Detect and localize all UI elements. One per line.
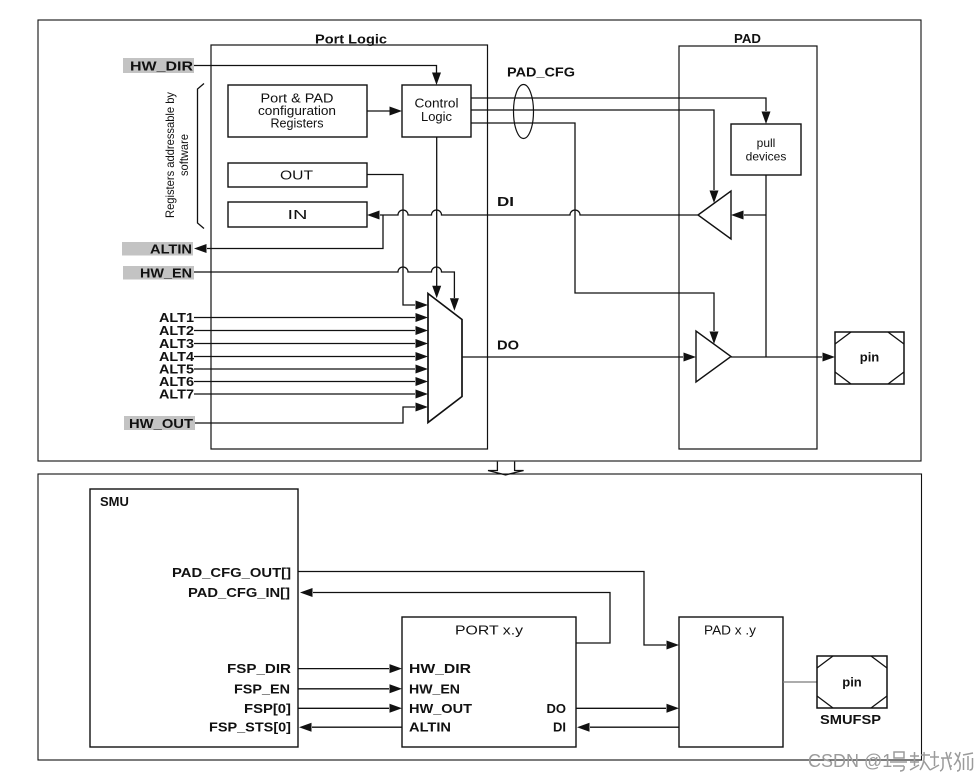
section divider hollow arrow [488, 462, 524, 475]
arrow pad node into input buffer [731, 211, 744, 220]
svg-text:FSP[0]: FSP[0] [244, 701, 291, 716]
svg-text:FSP_STS[0]: FSP_STS[0] [209, 720, 291, 735]
wire ALT3 [194, 343, 415, 345]
svg-text:DI: DI [497, 194, 514, 209]
arrow OUT into mux [416, 301, 429, 310]
arrow HW_OUT into mux [416, 403, 429, 412]
svg-text:Port Logic: Port Logic [315, 32, 387, 47]
svg-text:ALTIN: ALTIN [409, 720, 451, 735]
wire DO mux to output buffer [462, 356, 683, 358]
text pull devices [746, 136, 787, 164]
arrow ALTIN [194, 244, 207, 253]
svg-text:SMUFSP: SMUFSP [820, 712, 881, 727]
text Port & PAD configuration Registers [258, 92, 336, 131]
arrow FSP_EN [390, 684, 403, 693]
bus ellipse PAD_CFG [514, 85, 534, 139]
wire FSP_STS [312, 726, 402, 728]
wire HW_EN to mux with hops [194, 267, 454, 298]
wires group [194, 66, 822, 424]
svg-text:CSDN @1: CSDN @1 [808, 751, 892, 771]
arrow FSP0 [390, 704, 403, 713]
arrow PAD_CFG1 into pull devices [762, 112, 771, 125]
label HW_OUT [124, 416, 195, 431]
wire OUT to mux [367, 175, 415, 306]
SMU box [90, 489, 298, 747]
svg-text:FSP_DIR: FSP_DIR [227, 661, 292, 676]
PORT x.y box [402, 617, 576, 747]
svg-text:ALT7: ALT7 [159, 387, 194, 402]
svg-text:HW_EN: HW_EN [409, 681, 460, 696]
arrow FSP_DIR [390, 664, 403, 673]
arrow PAD_CFG2 into input buffer [710, 191, 719, 204]
svg-text:devices: devices [746, 150, 787, 164]
wire ALT7 [194, 393, 415, 395]
svg-text:pin: pin [842, 675, 862, 690]
svg-text:PAD_CFG_OUT[]: PAD_CFG_OUT[] [172, 565, 291, 580]
Port Logic container box [211, 45, 488, 449]
arrow HW_EN into mux [450, 298, 459, 311]
svg-text:PORT x.y: PORT x.y [455, 624, 524, 638]
register OUT [228, 163, 367, 187]
output buffer triangle [696, 331, 731, 382]
text Control Logic [415, 97, 459, 125]
watermark CJK glyphs [890, 751, 973, 771]
register block Port & PAD configuration Registers [228, 85, 367, 137]
label HW_DIR [123, 58, 194, 74]
control logic block U-CTL [402, 85, 471, 137]
arrow DI into PORT [577, 723, 590, 732]
svg-text:SMU: SMU [100, 494, 129, 509]
wire registers to control [367, 110, 390, 112]
wire PAD_CFG line3 to output buffer [471, 123, 714, 331]
svg-text:Control: Control [415, 97, 459, 111]
arrow PAD_CFG3 into output buffer [710, 332, 719, 345]
arrows ALT into mux [416, 313, 429, 322]
bottom text labels SMU side [172, 565, 292, 735]
pin cell top [835, 332, 904, 384]
mux trapezoid [428, 294, 462, 423]
wire control select to mux [436, 137, 438, 286]
rotated note: Registers addressable by software [163, 92, 191, 218]
svg-text:PAD: PAD [734, 31, 761, 46]
PAD x.y box [679, 617, 783, 747]
svg-text:OUT: OUT [280, 169, 313, 183]
svg-text:HW_OUT: HW_OUT [409, 701, 472, 716]
register IN [228, 202, 367, 227]
arrow HW_DIR into control [432, 73, 441, 86]
wire DO bottom [576, 707, 666, 709]
svg-text:HW_OUT: HW_OUT [129, 416, 193, 431]
svg-text:Registers: Registers [271, 117, 324, 131]
arrow control into mux [432, 286, 441, 299]
svg-text:DO: DO [547, 701, 567, 716]
arrow registers into control [390, 107, 403, 116]
svg-text:pin: pin [860, 350, 880, 365]
wire FSP_EN [298, 688, 389, 690]
svg-text:pull: pull [757, 136, 776, 150]
svg-text:DO: DO [497, 338, 519, 353]
glyph mei [910, 752, 930, 770]
svg-text:PAD_CFG: PAD_CFG [507, 65, 575, 80]
wire ALT2 [194, 330, 415, 332]
input buffer triangle [698, 191, 731, 239]
svg-text:HW_DIR: HW_DIR [130, 59, 194, 74]
svg-text:software: software [177, 134, 191, 176]
label ALTIN [122, 242, 193, 257]
svg-text:Registers addressable by: Registers addressable by [163, 92, 177, 218]
arrow DO into output buffer [684, 353, 697, 362]
arrow DO into PADxy [667, 704, 680, 713]
svg-text:PAD x .y: PAD x .y [704, 624, 757, 638]
glyph hao [890, 752, 907, 771]
outer box bottom section [38, 474, 922, 760]
wire PAD_CFG line2 to input buffer [471, 110, 714, 190]
wire output buffer to pin [731, 356, 822, 358]
arrow into pin top [823, 353, 836, 362]
bottom wires [298, 572, 679, 728]
wire ALT1 [194, 317, 415, 319]
outer box top section [38, 20, 921, 461]
wire DI from pad buffer to IN with hops [380, 210, 698, 215]
wire FSP0 [298, 707, 389, 709]
arrow FSP_STS into SMU [299, 723, 312, 732]
PAD container box [679, 46, 817, 449]
wire PAD_CFG line1 to pull devices [471, 98, 766, 111]
wire PAD_CFG_IN [313, 593, 610, 644]
svg-text:ALTIN: ALTIN [150, 242, 192, 257]
wire DI bottom [590, 726, 679, 728]
svg-text:IN: IN [288, 208, 308, 222]
arrow PAD_CFG_OUT into PADxy [667, 641, 680, 650]
glyph shi [954, 752, 973, 771]
arrow PAD_CFG_IN into SMU [300, 588, 313, 597]
svg-text:PAD_CFG_IN[]: PAD_CFG_IN[] [188, 585, 290, 600]
wire ALTIN tap [207, 215, 383, 249]
bracket registers addressable [198, 84, 205, 229]
label HW_EN [123, 266, 194, 281]
pin cell bottom [817, 656, 887, 708]
wire PAD to pin gray [783, 681, 817, 683]
svg-text:DI: DI [553, 720, 566, 735]
wire HW_DIR to control logic [194, 66, 437, 74]
wire ALT4 [194, 356, 415, 358]
svg-text:HW_EN: HW_EN [140, 266, 192, 281]
arrowheads group [194, 73, 835, 412]
wire pull devices to pad node [765, 175, 767, 357]
wire pad node to input buffer [744, 214, 766, 216]
bottom arrowheads [299, 588, 679, 732]
wire ALT6 [194, 381, 415, 383]
svg-text:Logic: Logic [421, 110, 452, 124]
wire ALT5 [194, 368, 415, 370]
svg-text:FSP_EN: FSP_EN [234, 681, 290, 696]
glyph cheng [930, 751, 952, 771]
svg-text:HW_DIR: HW_DIR [409, 661, 472, 676]
wire HW_OUT to mux [195, 407, 415, 423]
wire PAD_CFG_OUT [298, 572, 666, 646]
arrow DI into IN [367, 211, 380, 220]
pull devices block [731, 124, 801, 175]
wire FSP_DIR [298, 668, 389, 670]
bottom text labels PORT side [409, 661, 566, 735]
labels ALT1-ALT7 [159, 310, 195, 402]
